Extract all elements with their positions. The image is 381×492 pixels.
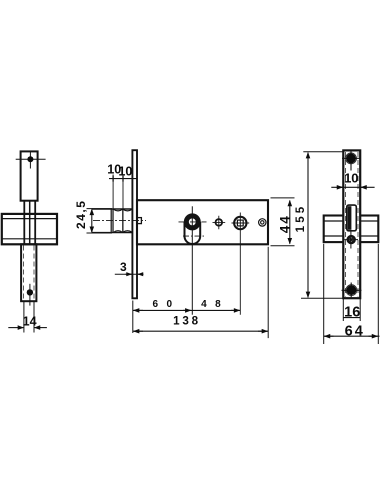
svg-text:10: 10 xyxy=(118,164,132,178)
dimension 64 arrows xyxy=(325,335,334,337)
dimension 16 line xyxy=(343,317,360,319)
left side view: lock body box xyxy=(2,214,57,244)
left side view: body inner top line xyxy=(2,218,57,220)
dimension 10 arrows (right view) xyxy=(337,186,343,188)
dimension 48 arrow xyxy=(231,309,240,311)
right view: cylinder slot xyxy=(347,205,357,231)
middle view: stem verticals xyxy=(111,209,123,233)
middle view: cylinder horizontal centerline xyxy=(179,221,207,223)
dimension 44 line xyxy=(289,201,291,244)
middle view: follower circle xyxy=(234,217,246,229)
right view: middle screw centerline xyxy=(345,232,359,249)
middle view: cylinder vertical centerline xyxy=(191,206,193,314)
left side view: lower bar inner dashed lines xyxy=(24,246,34,300)
right view: body inner lines xyxy=(324,221,379,236)
dimension 3 leader line xyxy=(115,273,143,275)
middle view: small hole B xyxy=(259,219,266,226)
middle view: euro cylinder circle xyxy=(186,216,198,228)
dimension 16 extension lines xyxy=(343,299,360,321)
dimension 10-10 line xyxy=(109,178,137,180)
dimension 155 line xyxy=(307,153,309,298)
svg-text:60: 60 xyxy=(152,299,180,310)
left side view: top screw centerlines xyxy=(16,151,46,168)
right view: middle screw xyxy=(348,236,355,243)
dimension 3 arrows xyxy=(126,273,132,275)
dimension 10-10 extension lines xyxy=(113,175,123,234)
dimension 64 line xyxy=(324,335,380,337)
dimension 24,5 extension lines xyxy=(87,209,113,233)
dimension 60/48 line xyxy=(133,309,241,311)
svg-text:14: 14 xyxy=(23,314,37,328)
right view: top screw xyxy=(346,153,356,163)
middle view: cylinder screw boss xyxy=(137,218,141,224)
right view: slot dark bar xyxy=(348,206,352,230)
svg-text:64: 64 xyxy=(345,323,365,339)
right view: bottom screw centerlines xyxy=(342,283,362,298)
left side view: upper faceplate bar xyxy=(21,151,38,200)
dimension 10 line (right view) xyxy=(331,186,374,188)
left side view: body inner bottom line xyxy=(2,238,57,240)
right view: bottom screw xyxy=(346,285,356,295)
middle view: cylinder lower dash line xyxy=(183,235,206,237)
middle view: euro cylinder lower stadium xyxy=(185,222,201,244)
middle view: lock body rectangle xyxy=(137,200,268,244)
middle view: faceplate edge xyxy=(132,150,137,298)
dimension 14 extension lines xyxy=(24,302,34,333)
right view: lock body end box xyxy=(324,216,379,243)
middle view: stem arcs xyxy=(114,209,132,232)
left side view: top screw xyxy=(27,156,33,162)
left side view: lower faceplate bar xyxy=(21,244,36,301)
right view: faceplate inner lines xyxy=(346,152,359,297)
svg-text:24,5: 24,5 xyxy=(74,200,88,229)
dimension 14 line with arrows xyxy=(8,327,23,329)
middle view: follower square xyxy=(237,220,243,226)
left side view: bottom screw xyxy=(27,289,33,295)
dimension 24,5 line xyxy=(91,209,93,232)
middle view: small hole A xyxy=(216,219,223,226)
svg-text:16: 16 xyxy=(344,304,360,320)
right view: faceplate front xyxy=(343,150,360,298)
svg-text:3: 3 xyxy=(120,260,127,274)
middle view: stem centerline xyxy=(93,220,146,222)
left side view: bottom screw centerline xyxy=(29,284,31,306)
svg-text:44: 44 xyxy=(277,214,292,233)
dimension 10-10 ticks xyxy=(113,176,123,182)
dimension 155 extension lines xyxy=(301,152,343,298)
svg-text:48: 48 xyxy=(201,299,229,310)
dimension 138 extension lines xyxy=(133,247,268,338)
svg-text:138: 138 xyxy=(173,314,201,327)
left side view: cylinder stem through body xyxy=(24,201,35,245)
svg-text:155: 155 xyxy=(295,204,307,233)
right view: top screw centerlines xyxy=(342,151,361,171)
left side view: cylinder stem center line xyxy=(29,201,31,245)
dimension 64 extension lines xyxy=(324,244,379,344)
dimension 60 arrows xyxy=(134,309,143,311)
dimension 44 extension lines xyxy=(271,198,295,246)
middle view: cylinder stem outline xyxy=(92,209,133,233)
svg-text:10: 10 xyxy=(344,171,358,186)
middle view: follower centerlines xyxy=(232,213,250,315)
dimension 138 line xyxy=(133,330,268,332)
middle view: small hole A centerlines xyxy=(213,216,226,230)
